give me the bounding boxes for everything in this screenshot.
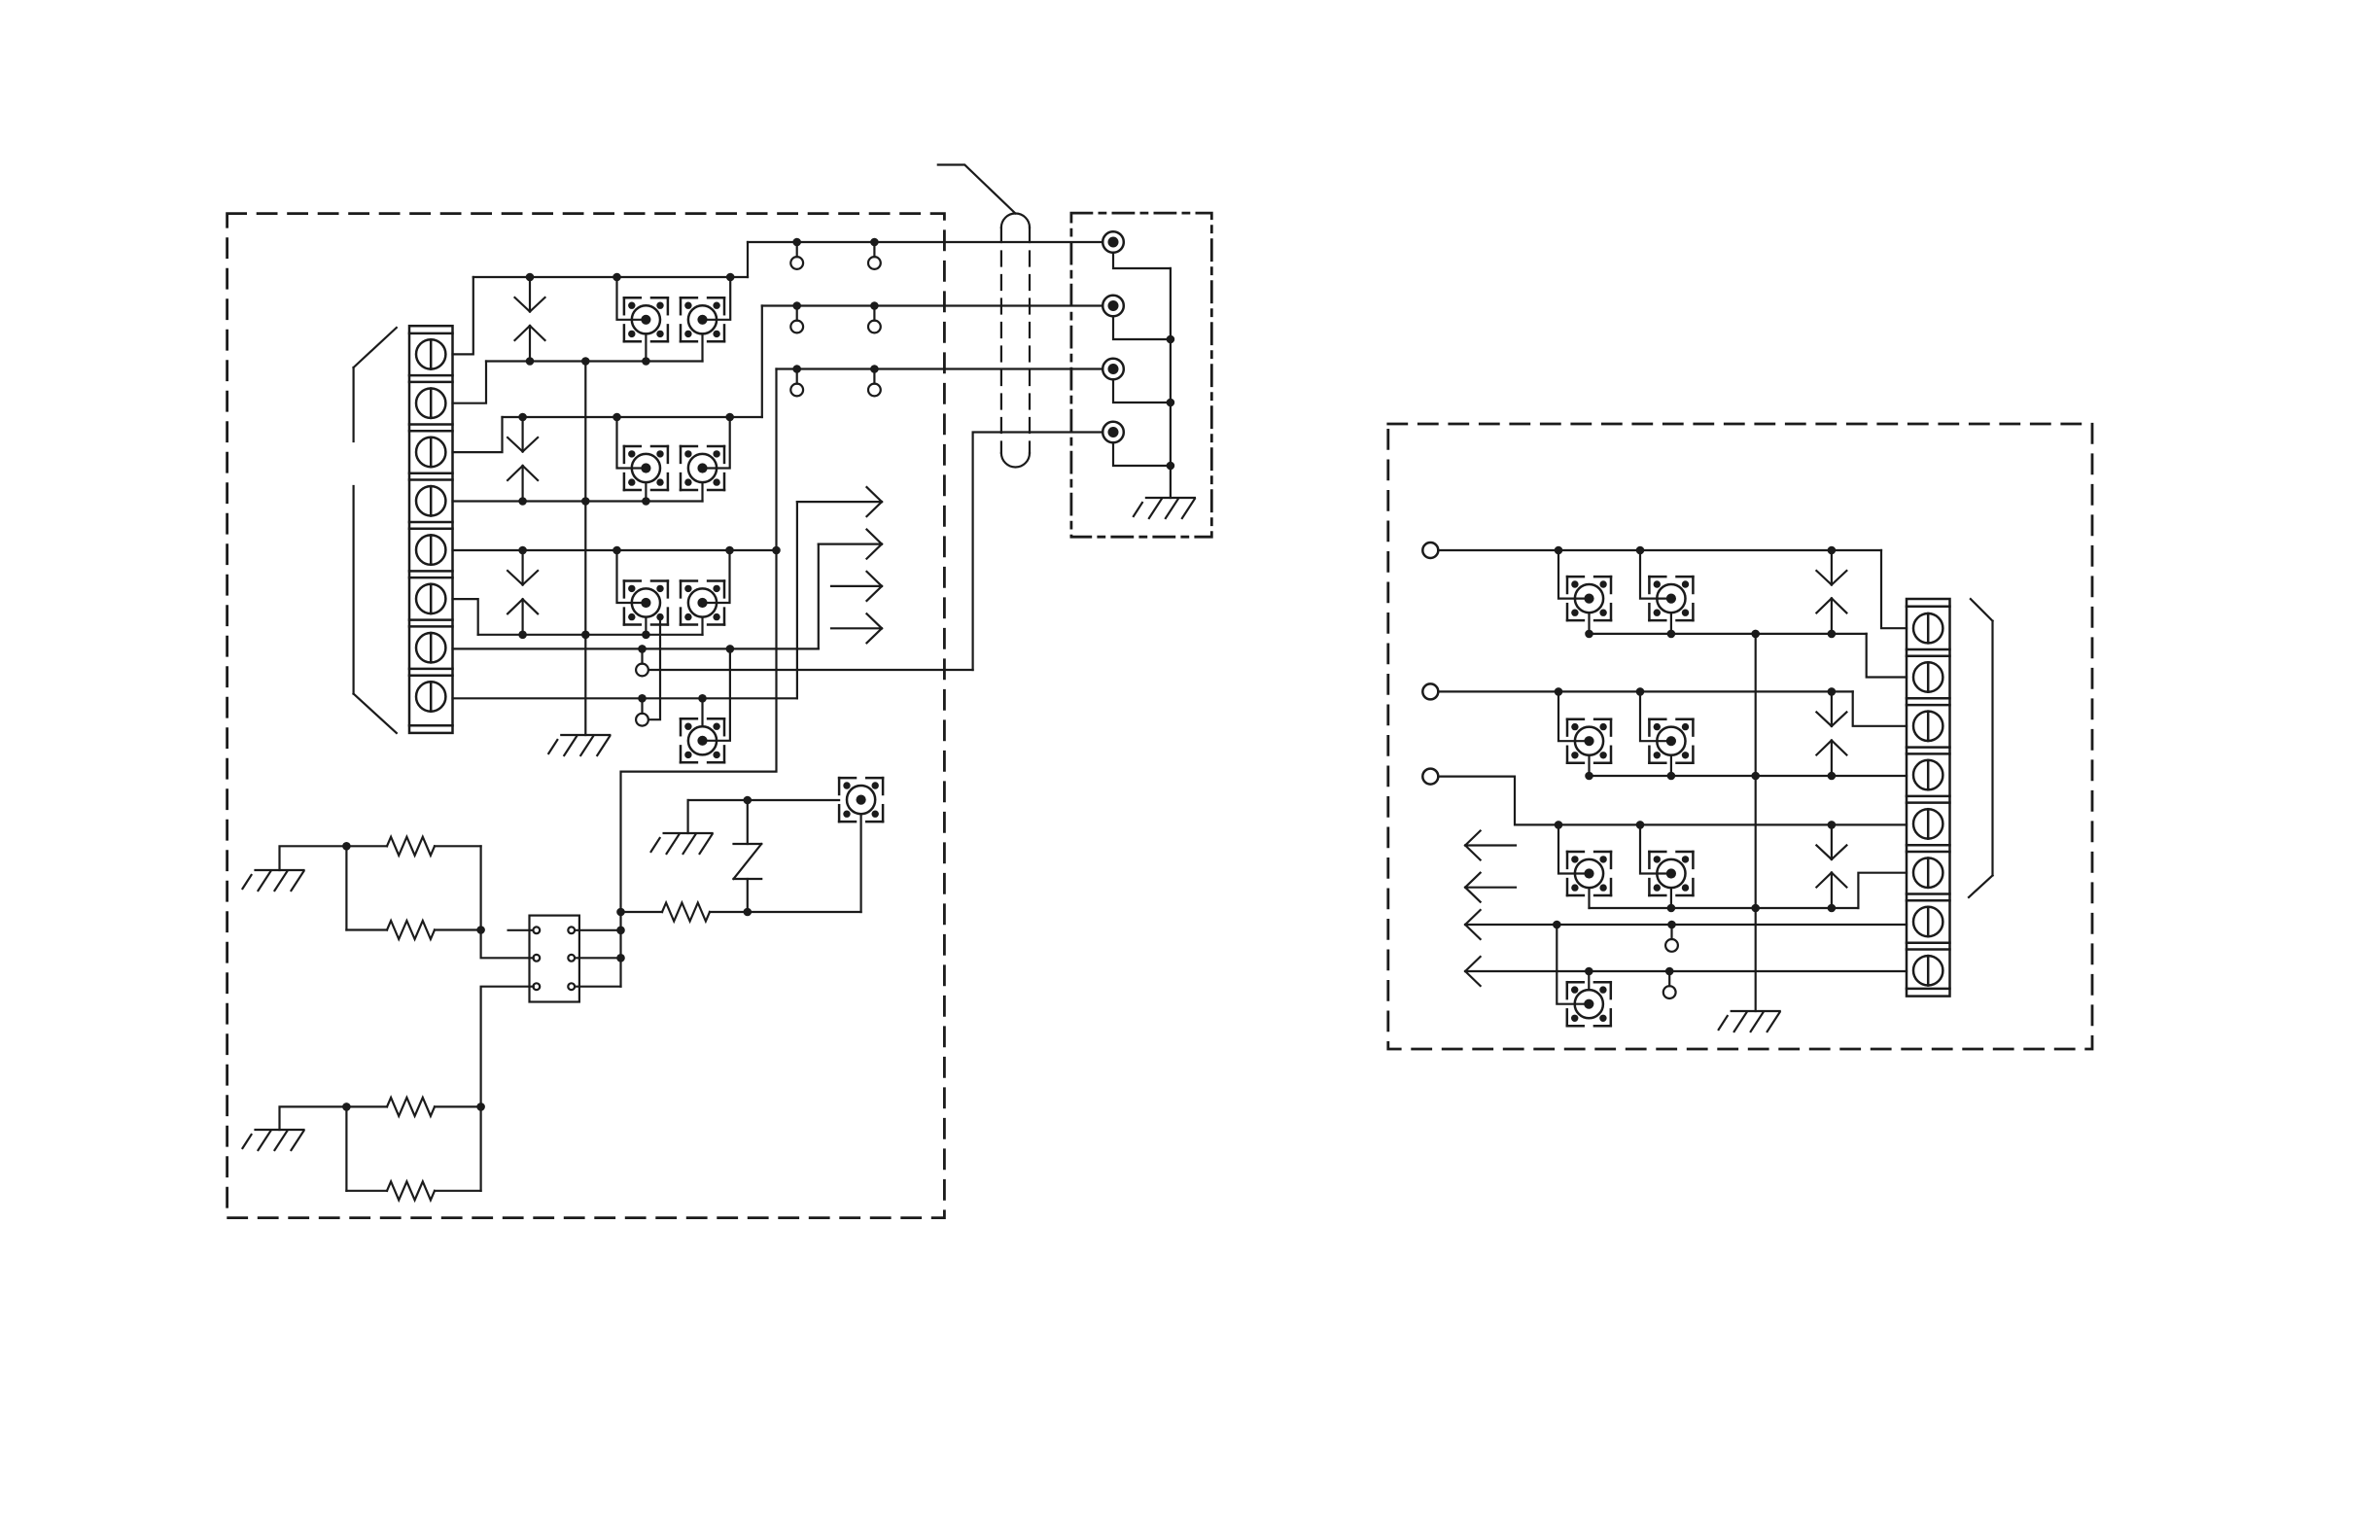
wire T3R tail	[1588, 755, 1590, 776]
junction dots groupR2 bottom rail	[1585, 772, 1836, 781]
wire groupR1 bottom rail	[1590, 633, 1867, 635]
transducer T1R	[1567, 577, 1611, 620]
ground G3 (upper resistor pair)	[243, 870, 304, 891]
wire J1 pin3R to bus	[575, 986, 620, 988]
transducer T4	[681, 446, 724, 490]
wire TB1-3 to group2 top rail	[453, 417, 503, 452]
connector J1 pins	[533, 927, 575, 990]
brace left of TB1	[354, 328, 397, 733]
stub circle on TB2-7 row	[1665, 925, 1678, 952]
wire T5 tail	[645, 617, 647, 635]
connector pin P1 (circled dot)	[1102, 231, 1124, 253]
junction dots group2 bottom rail	[518, 497, 649, 506]
wire ground bus right box	[1755, 634, 1757, 1011]
wire lower pair right leg	[480, 1106, 482, 1190]
arrow A4	[831, 613, 882, 643]
wire T2 tail	[701, 333, 703, 361]
wire groupR3 bottom rail	[1590, 907, 1859, 909]
junction dots group2 top rail	[518, 413, 734, 422]
arrow B4 (lower left arrow)	[1465, 873, 1516, 902]
wire T1 tail	[645, 333, 647, 361]
wire T8 input row	[688, 799, 840, 801]
wire T7R top tail	[1588, 971, 1590, 990]
wire + resistor R1	[346, 837, 480, 856]
stub circle on TB1-8 row	[636, 698, 648, 725]
wire T3R entry	[1558, 691, 1590, 741]
wire group2 top rail	[503, 416, 762, 418]
ground G4 (lower resistor pair)	[243, 1130, 304, 1150]
wire T6R tail	[1670, 888, 1672, 908]
connector pin P3 (circled dot)	[1102, 359, 1124, 380]
stub circle on TB2-8 row	[1663, 971, 1676, 998]
transducer T5R	[1567, 852, 1611, 895]
wire T7 entry	[703, 648, 730, 740]
wire row2	[762, 304, 1103, 306]
wire upper pair to connector pin 2L	[481, 930, 534, 959]
wire upper pair right leg	[480, 846, 482, 929]
arrow A3	[831, 572, 882, 601]
wire T7 top tail	[701, 698, 703, 726]
junction dots TB2-7 row	[1553, 921, 1676, 929]
arrow B2 / wire TB2-8 row	[1465, 957, 1907, 986]
wire T2R entry	[1640, 550, 1671, 599]
wire group1 top rail	[473, 276, 748, 278]
diode pair D2	[507, 417, 538, 502]
arrow A1 with feed from TB1-8 row	[797, 487, 882, 698]
cable leader line	[938, 165, 1016, 214]
wire ground G3 lead	[280, 846, 347, 870]
wire P2 to shield bus	[1113, 316, 1171, 339]
transducer T1	[624, 297, 668, 341]
wire J1 pin1L stub	[508, 929, 534, 931]
connector shield box dash-dot border	[1071, 213, 1211, 537]
wire T1R tail	[1588, 612, 1590, 634]
wire row3	[777, 367, 1103, 369]
transducer T7	[681, 718, 724, 762]
junction dots row1	[792, 238, 878, 247]
transducer T4R	[1649, 719, 1693, 763]
wire T6R entry	[1640, 824, 1671, 873]
wire row4	[973, 433, 1103, 671]
transducer T3R	[1567, 719, 1611, 763]
wire stub circle to T5 corner dot	[648, 617, 660, 720]
input IN1 (open circle)	[1422, 542, 1438, 558]
wire lower pair left leg	[345, 1106, 347, 1190]
junction dot varistor bottom	[744, 908, 752, 917]
wire T8 tail	[859, 814, 861, 912]
wire J1 pin2R to bus	[575, 957, 620, 959]
stub circles row1	[790, 242, 881, 269]
junction dots groupR1 bottom rail	[1585, 630, 1836, 639]
input IN3 (open circle)	[1422, 769, 1438, 785]
wire T4R tail	[1670, 755, 1672, 776]
stub circles row2	[790, 306, 881, 333]
wire IN1 to groupR1 top rail	[1438, 549, 1881, 551]
wire T5R tail	[1588, 888, 1590, 908]
wire group1 to row1	[747, 242, 749, 277]
brace right of TB2	[1969, 599, 1993, 897]
wire T2R tail	[1670, 612, 1672, 634]
right device enclosure dashed border	[1388, 424, 2092, 1049]
junction dot upper pair right	[476, 926, 485, 934]
junction dots TB1-8 row	[638, 694, 707, 703]
wire varistor top lead	[747, 800, 749, 844]
wire stub circle to row4	[648, 669, 972, 671]
diode pair D1	[515, 277, 545, 362]
wire + resistor R5	[621, 903, 861, 922]
terminal block TB2 (8 screw terminals)	[1907, 599, 1950, 997]
diode pair DR3	[1816, 824, 1846, 908]
ground G5 (T8 input)	[651, 833, 713, 854]
stub circle on TB1-7 row	[636, 648, 648, 676]
wire TB1-7 row	[453, 647, 819, 649]
wire T6 tail	[701, 617, 703, 635]
wire P1 to shield bus	[1113, 253, 1171, 268]
wire TB1-1 to group1 top rail	[453, 277, 473, 354]
transducer T3	[624, 446, 668, 490]
junction dot upper pair left	[342, 842, 351, 851]
transducer T7R	[1567, 982, 1611, 1026]
wire common bus vertical	[584, 362, 586, 736]
wire T4R entry	[1640, 691, 1671, 741]
wire TB1-8 row	[453, 697, 797, 699]
junction dots groupR3 top rail	[1555, 821, 1837, 829]
junction dots groupR3 bottom rail	[1667, 904, 1837, 913]
wire group3 top rail (TB1-5)	[453, 549, 777, 551]
wire T8 row to ground	[686, 800, 688, 833]
terminal block TB1 (8 screw terminals)	[409, 326, 453, 733]
diode pair D3	[507, 550, 538, 635]
resistor R4	[346, 1181, 480, 1200]
wire P3 to shield bus	[1113, 379, 1171, 402]
junction dots groupR1 top rail	[1555, 546, 1837, 555]
wire IN3 to groupR3 top rail	[1438, 777, 1907, 825]
wire row1	[748, 241, 1102, 243]
wire upper pair left leg	[345, 846, 347, 929]
wire row3 bus down	[621, 369, 777, 987]
wire groupR3 bottom rail to TB2-6	[1858, 873, 1907, 908]
wire T4 tail	[701, 482, 703, 501]
transducer T6	[681, 581, 724, 625]
ground G1 (left box common)	[548, 735, 610, 755]
wire T5R entry	[1558, 824, 1590, 873]
diode pair DR1	[1816, 550, 1846, 634]
left device enclosure dashed border	[227, 214, 945, 1218]
junction dots group3 top rail	[518, 546, 781, 555]
junction dots row2	[792, 301, 878, 310]
wire groupR2 bottom rail to TB2-4	[1590, 775, 1907, 777]
junction dots group1 top rail	[526, 273, 735, 282]
wire varistor bottom lead	[747, 879, 749, 912]
wire group2 bottom rail (TB1-4)	[453, 500, 703, 502]
wire group1 bottom rail	[486, 360, 703, 362]
input IN2 (open circle)	[1422, 683, 1438, 699]
ground G2 (shield)	[1134, 498, 1195, 518]
junction dots groupR2 top rail	[1555, 687, 1837, 696]
arrow B1 / wire TB2-7 row	[1465, 910, 1907, 939]
wire group2 to row2	[761, 306, 763, 418]
wire + resistor R3	[346, 1098, 480, 1116]
connector J1 body	[530, 916, 579, 1002]
arrow B3 (upper left arrow)	[1465, 831, 1516, 860]
wire groupR2 top rail to TB2-3	[1853, 691, 1907, 725]
wire group3 bottom rail	[478, 634, 703, 636]
connector pin P2 (circled dot)	[1102, 296, 1124, 317]
junction dots shield bus	[1167, 335, 1175, 471]
wire TB1-6 to group3 bottom rail	[453, 599, 478, 635]
wire T2 entry	[703, 277, 731, 320]
wire IN2 to groupR2 top rail	[1438, 690, 1852, 692]
cable shield oval	[1001, 213, 1030, 467]
transducer T6R	[1649, 852, 1693, 895]
wire T7R entry	[1557, 925, 1589, 1004]
wire T6 entry	[703, 550, 730, 603]
junction dot lower pair left	[342, 1102, 351, 1111]
wire J1 pin1R to bus	[575, 929, 620, 931]
wire groupR1 bottom rail to TB2-2	[1867, 634, 1907, 678]
wire T1 entry	[617, 277, 647, 320]
junction dots TB2-8 row	[1585, 967, 1673, 976]
wire T5 entry	[617, 550, 647, 603]
diode pair DR2	[1816, 691, 1846, 776]
stub circles row3	[790, 369, 881, 397]
arrow A2 with feed from TB1-7 row	[819, 530, 882, 649]
wire T4 entry	[703, 417, 730, 469]
junction dot T8 row	[744, 796, 752, 805]
varistor RV1	[734, 844, 762, 879]
wire shield bus	[1170, 268, 1172, 498]
wire T3 entry	[617, 417, 647, 469]
junction dots TB1-7 row	[638, 645, 734, 653]
junction dots row3	[792, 365, 878, 373]
wire TB1-2 to group1 bottom rail	[453, 362, 487, 403]
transducer T8	[839, 778, 883, 822]
resistor R2	[346, 921, 480, 939]
wire ground G4 lead	[280, 1106, 347, 1130]
junction dots J1 bus	[616, 908, 625, 962]
junction dots group1 bottom rail	[526, 357, 650, 366]
transducer T5	[624, 581, 668, 625]
junction dot lower pair right	[476, 1102, 485, 1111]
wire groupR1 top rail to TB2-1	[1881, 550, 1907, 628]
wire T3 tail	[645, 482, 647, 501]
wire lower pair to connector pin 3L	[481, 987, 534, 1107]
transducer T2	[681, 297, 724, 341]
wire T1R entry	[1558, 550, 1590, 599]
junction dots group3 bottom rail	[518, 631, 649, 640]
transducer T2R	[1649, 577, 1693, 620]
connector pin P4 (circled dot)	[1102, 422, 1124, 443]
wire P4 to shield bus	[1113, 442, 1171, 466]
ground G6 (right box)	[1719, 1011, 1780, 1032]
